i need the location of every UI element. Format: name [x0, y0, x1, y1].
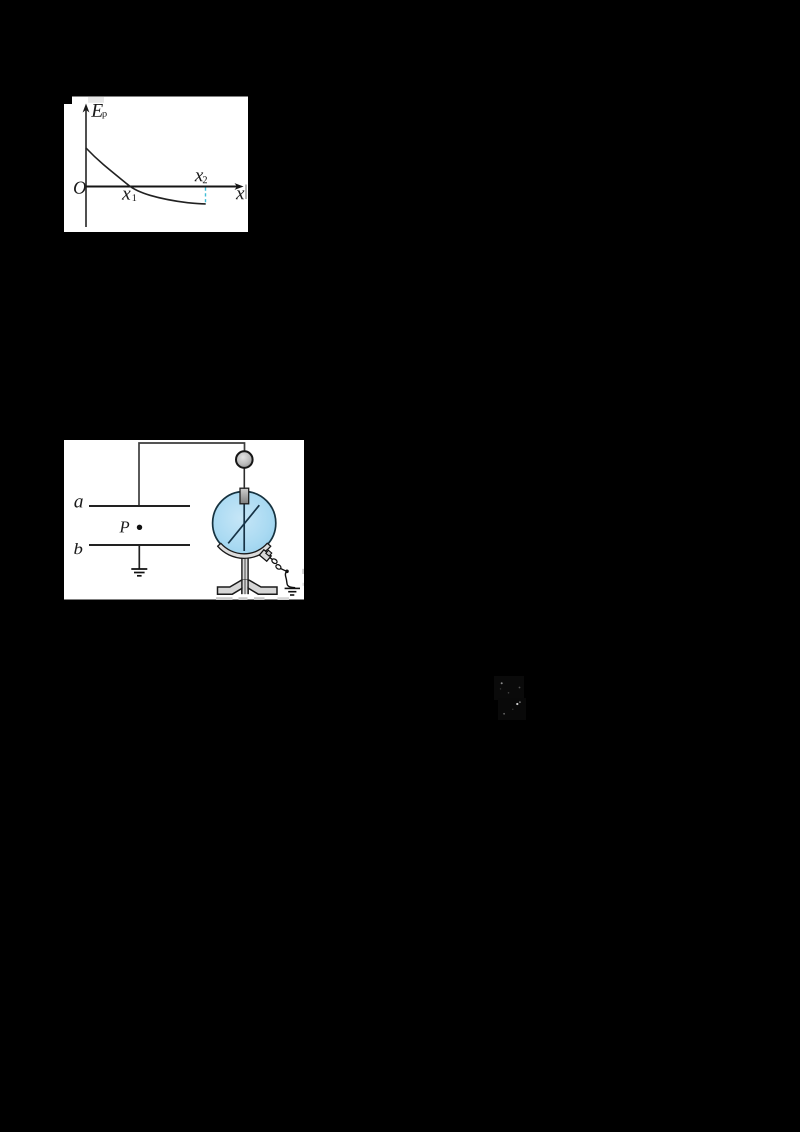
binding post on cradle: [259, 550, 271, 562]
plate b: [89, 544, 190, 546]
dashed cyan marker at x2: [205, 188, 207, 204]
Ep curve: [86, 148, 206, 204]
ground (below plate b): [131, 569, 147, 576]
label P: [119, 522, 129, 533]
column over base joint: [242, 580, 248, 594]
gray smudge top: [88, 97, 104, 103]
edge sliver marks: [302, 569, 304, 574]
cradle (saddle band over sphere bottom): [218, 543, 271, 558]
neck: [240, 488, 249, 504]
gray bar right of arrow: [245, 185, 247, 200]
stem to knob: [243, 468, 245, 489]
label O: [74, 181, 86, 193]
floor shadow strip: [216, 597, 289, 600]
wire: top horizontal from plate lead to electroscope: [139, 443, 245, 506]
knob ball: [236, 451, 253, 468]
wire: plate b to ground: [138, 545, 140, 569]
chain wire from post: [270, 557, 273, 559]
y-axis arrowhead: [83, 104, 90, 113]
electroscope stand column: [242, 556, 249, 594]
figure 1 panel: Ep vs x graph: [64, 97, 248, 233]
internal rod: [243, 503, 245, 551]
point P dot: [137, 525, 142, 530]
chain link 2: [275, 564, 282, 570]
x-axis arrowhead: [235, 183, 244, 190]
label x (axis): [236, 190, 245, 199]
label a: [74, 498, 82, 507]
label b: [74, 543, 82, 554]
y-axis: [85, 110, 87, 227]
panel background: [64, 440, 304, 600]
x-axis: [86, 186, 238, 188]
figure 2 panel: capacitor + electroscope: [64, 440, 304, 600]
label Ep: [91, 104, 103, 117]
faint watermark specks (center of page): [494, 676, 526, 720]
chain wire link2-blob: [281, 569, 286, 571]
hanging wire to ground: [285, 571, 295, 587]
electroscope base: [218, 580, 278, 594]
chain end blob: [285, 570, 289, 574]
label x1: [122, 191, 131, 200]
plate a: [89, 505, 190, 507]
ground (electroscope, bottom right): [285, 588, 300, 595]
label x2: [195, 172, 204, 181]
glass sphere: [213, 491, 276, 554]
needle (gold leaf): [228, 505, 259, 543]
chain link 1: [271, 558, 278, 564]
panel background: [64, 104, 248, 232]
